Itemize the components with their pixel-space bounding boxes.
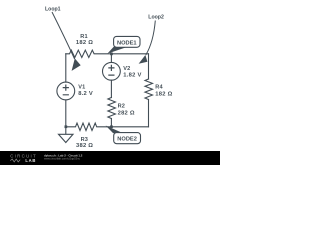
svg-text:Loop2: Loop2: [148, 15, 164, 21]
svg-text:1.82 V: 1.82 V: [123, 73, 141, 79]
wire right rail lower: [148, 100, 150, 127]
resistor R3: [66, 123, 112, 130]
wire top rail right segment: [111, 53, 148, 55]
svg-text:www.circuitlab.com/c/2qp53nc: www.circuitlab.com/c/2qp53nc: [44, 157, 81, 161]
junction dot at ground/left rail: [65, 125, 68, 128]
voltage source V1: [57, 82, 75, 100]
svg-text:282 Ω: 282 Ω: [118, 110, 135, 116]
resistor R4: [145, 79, 153, 100]
svg-text:R4: R4: [155, 85, 163, 91]
node label NODE1: [107, 36, 140, 53]
svg-text:382 Ω: 382 Ω: [76, 143, 93, 149]
ground: [59, 127, 74, 143]
svg-text:R2: R2: [118, 104, 125, 110]
voltage source V2: [103, 62, 121, 80]
svg-text:V2: V2: [123, 66, 130, 72]
svg-text:Loop1: Loop1: [45, 7, 61, 13]
svg-text:R1: R1: [80, 34, 87, 40]
junction dot at NODE1: [110, 53, 113, 56]
loop annotation Loop2: [139, 15, 164, 64]
svg-text:NODE1: NODE1: [117, 40, 137, 46]
resistor R1: [66, 50, 112, 57]
loop annotation Loop1: [45, 7, 81, 71]
wire middle branch bottom segment: [110, 119, 112, 127]
wire bottom rail right segment: [111, 126, 148, 128]
svg-text:NODE2: NODE2: [117, 137, 137, 143]
wire middle branch mid segment: [110, 80, 112, 97]
wire left rail upper: [65, 54, 67, 82]
wire left rail lower: [65, 100, 67, 127]
junction dot at NODE2: [110, 125, 113, 128]
svg-text:8.2 V: 8.2 V: [78, 91, 93, 97]
svg-text:V1: V1: [78, 84, 85, 90]
node label NODE2: [106, 126, 141, 144]
wire middle branch top stub: [110, 54, 112, 63]
watermark bar: [0, 151, 220, 165]
wire right rail upper: [148, 54, 150, 79]
svg-text:182 Ω: 182 Ω: [76, 40, 93, 46]
svg-text:LAB: LAB: [25, 158, 36, 163]
svg-text:182 Ω: 182 Ω: [155, 92, 172, 98]
resistor R2: [108, 98, 116, 119]
